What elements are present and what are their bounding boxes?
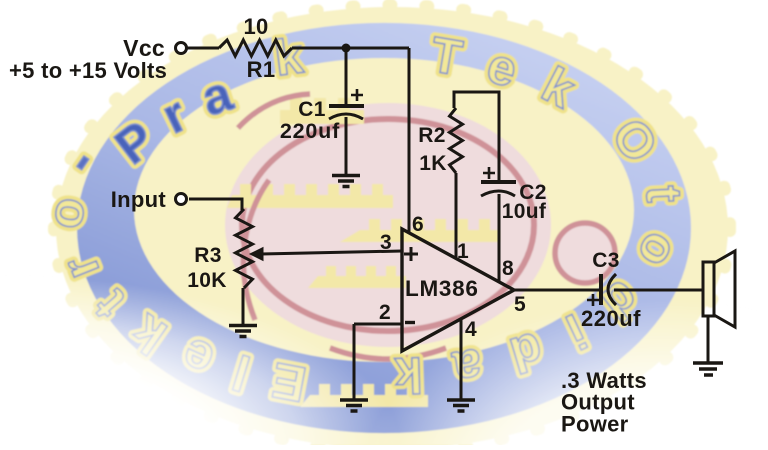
wire R2 to pin1 xyxy=(455,173,458,257)
watermark blue ring xyxy=(77,23,691,433)
svg-text:1K: 1K xyxy=(419,152,446,175)
wire input to R3 xyxy=(189,199,242,210)
svg-text:5: 5 xyxy=(514,293,526,316)
ground C1 xyxy=(332,176,360,187)
resistor R3 xyxy=(236,209,253,288)
ground pin2 xyxy=(340,400,368,411)
resistor R2 top wires xyxy=(454,92,499,182)
fade corner xyxy=(0,240,768,445)
svg-text:220uf: 220uf xyxy=(581,306,641,331)
svg-text:10: 10 xyxy=(243,14,268,39)
svg-text:R3: R3 xyxy=(194,244,221,267)
resistor R2 xyxy=(450,108,463,173)
svg-text:R1: R1 xyxy=(247,57,276,82)
capacitor C1 xyxy=(329,104,364,108)
wire pin4 xyxy=(460,318,463,399)
svg-text:+5 to +15 Volts: +5 to +15 Volts xyxy=(9,58,167,83)
svg-text:C1: C1 xyxy=(298,98,325,121)
polarity marks xyxy=(351,89,599,323)
wire speaker to ground xyxy=(707,316,710,362)
svg-text:LM386: LM386 xyxy=(405,276,479,301)
minus op-amp input xyxy=(405,321,415,324)
wire junction to C1 xyxy=(345,48,348,106)
terminal Input xyxy=(176,194,187,205)
capacitor C3 xyxy=(599,274,603,305)
svg-text:220uf: 220uf xyxy=(280,119,340,143)
svg-text:10uf: 10uf xyxy=(502,200,547,223)
svg-text:R2: R2 xyxy=(418,124,445,147)
watermark maroon inner ring xyxy=(242,119,534,331)
svg-text:6: 6 xyxy=(412,213,424,236)
wire Vcc to R1 xyxy=(187,47,219,50)
svg-text:4: 4 xyxy=(465,318,477,341)
svg-text:10K: 10K xyxy=(187,269,226,292)
watermark emblem maroon shapes xyxy=(238,94,615,359)
wire C3 to speaker xyxy=(614,289,703,292)
svg-text:1: 1 xyxy=(457,240,469,263)
plus C2 xyxy=(483,167,495,179)
resistor R1 xyxy=(219,40,292,56)
svg-text:C3: C3 xyxy=(592,249,619,272)
capacitor C2 xyxy=(481,180,516,184)
svg-text:3: 3 xyxy=(380,231,392,254)
ground speaker xyxy=(693,363,723,375)
junction node xyxy=(342,44,351,53)
wire pin5 to C3 xyxy=(515,289,600,292)
wire R1 to pin6 drop xyxy=(292,47,409,50)
wire pin2 to ground xyxy=(353,324,356,399)
wire R3 to ground xyxy=(242,288,245,324)
svg-text:8: 8 xyxy=(502,257,514,280)
potentiometer wiper arrow xyxy=(250,248,263,261)
svg-text:Power: Power xyxy=(561,412,629,437)
speaker xyxy=(703,262,714,316)
plus C3 xyxy=(587,294,599,306)
ground pin4 xyxy=(447,400,475,411)
wire pin2 xyxy=(354,323,402,326)
wire pin3 xyxy=(261,251,402,254)
svg-text:Input: Input xyxy=(111,187,167,212)
plus C1 xyxy=(351,89,363,101)
op-amp U1 LM386 xyxy=(402,229,514,351)
plus op-amp input xyxy=(404,247,418,261)
ground R3 xyxy=(229,326,257,337)
svg-text:2: 2 xyxy=(379,301,391,324)
terminal Vcc xyxy=(176,43,187,54)
wire pin 6 vertical xyxy=(408,48,411,233)
watermark inner pink disc xyxy=(225,103,551,347)
wire C2 to pin8 xyxy=(498,194,501,281)
watermark emblem castellated bar top xyxy=(227,98,500,407)
